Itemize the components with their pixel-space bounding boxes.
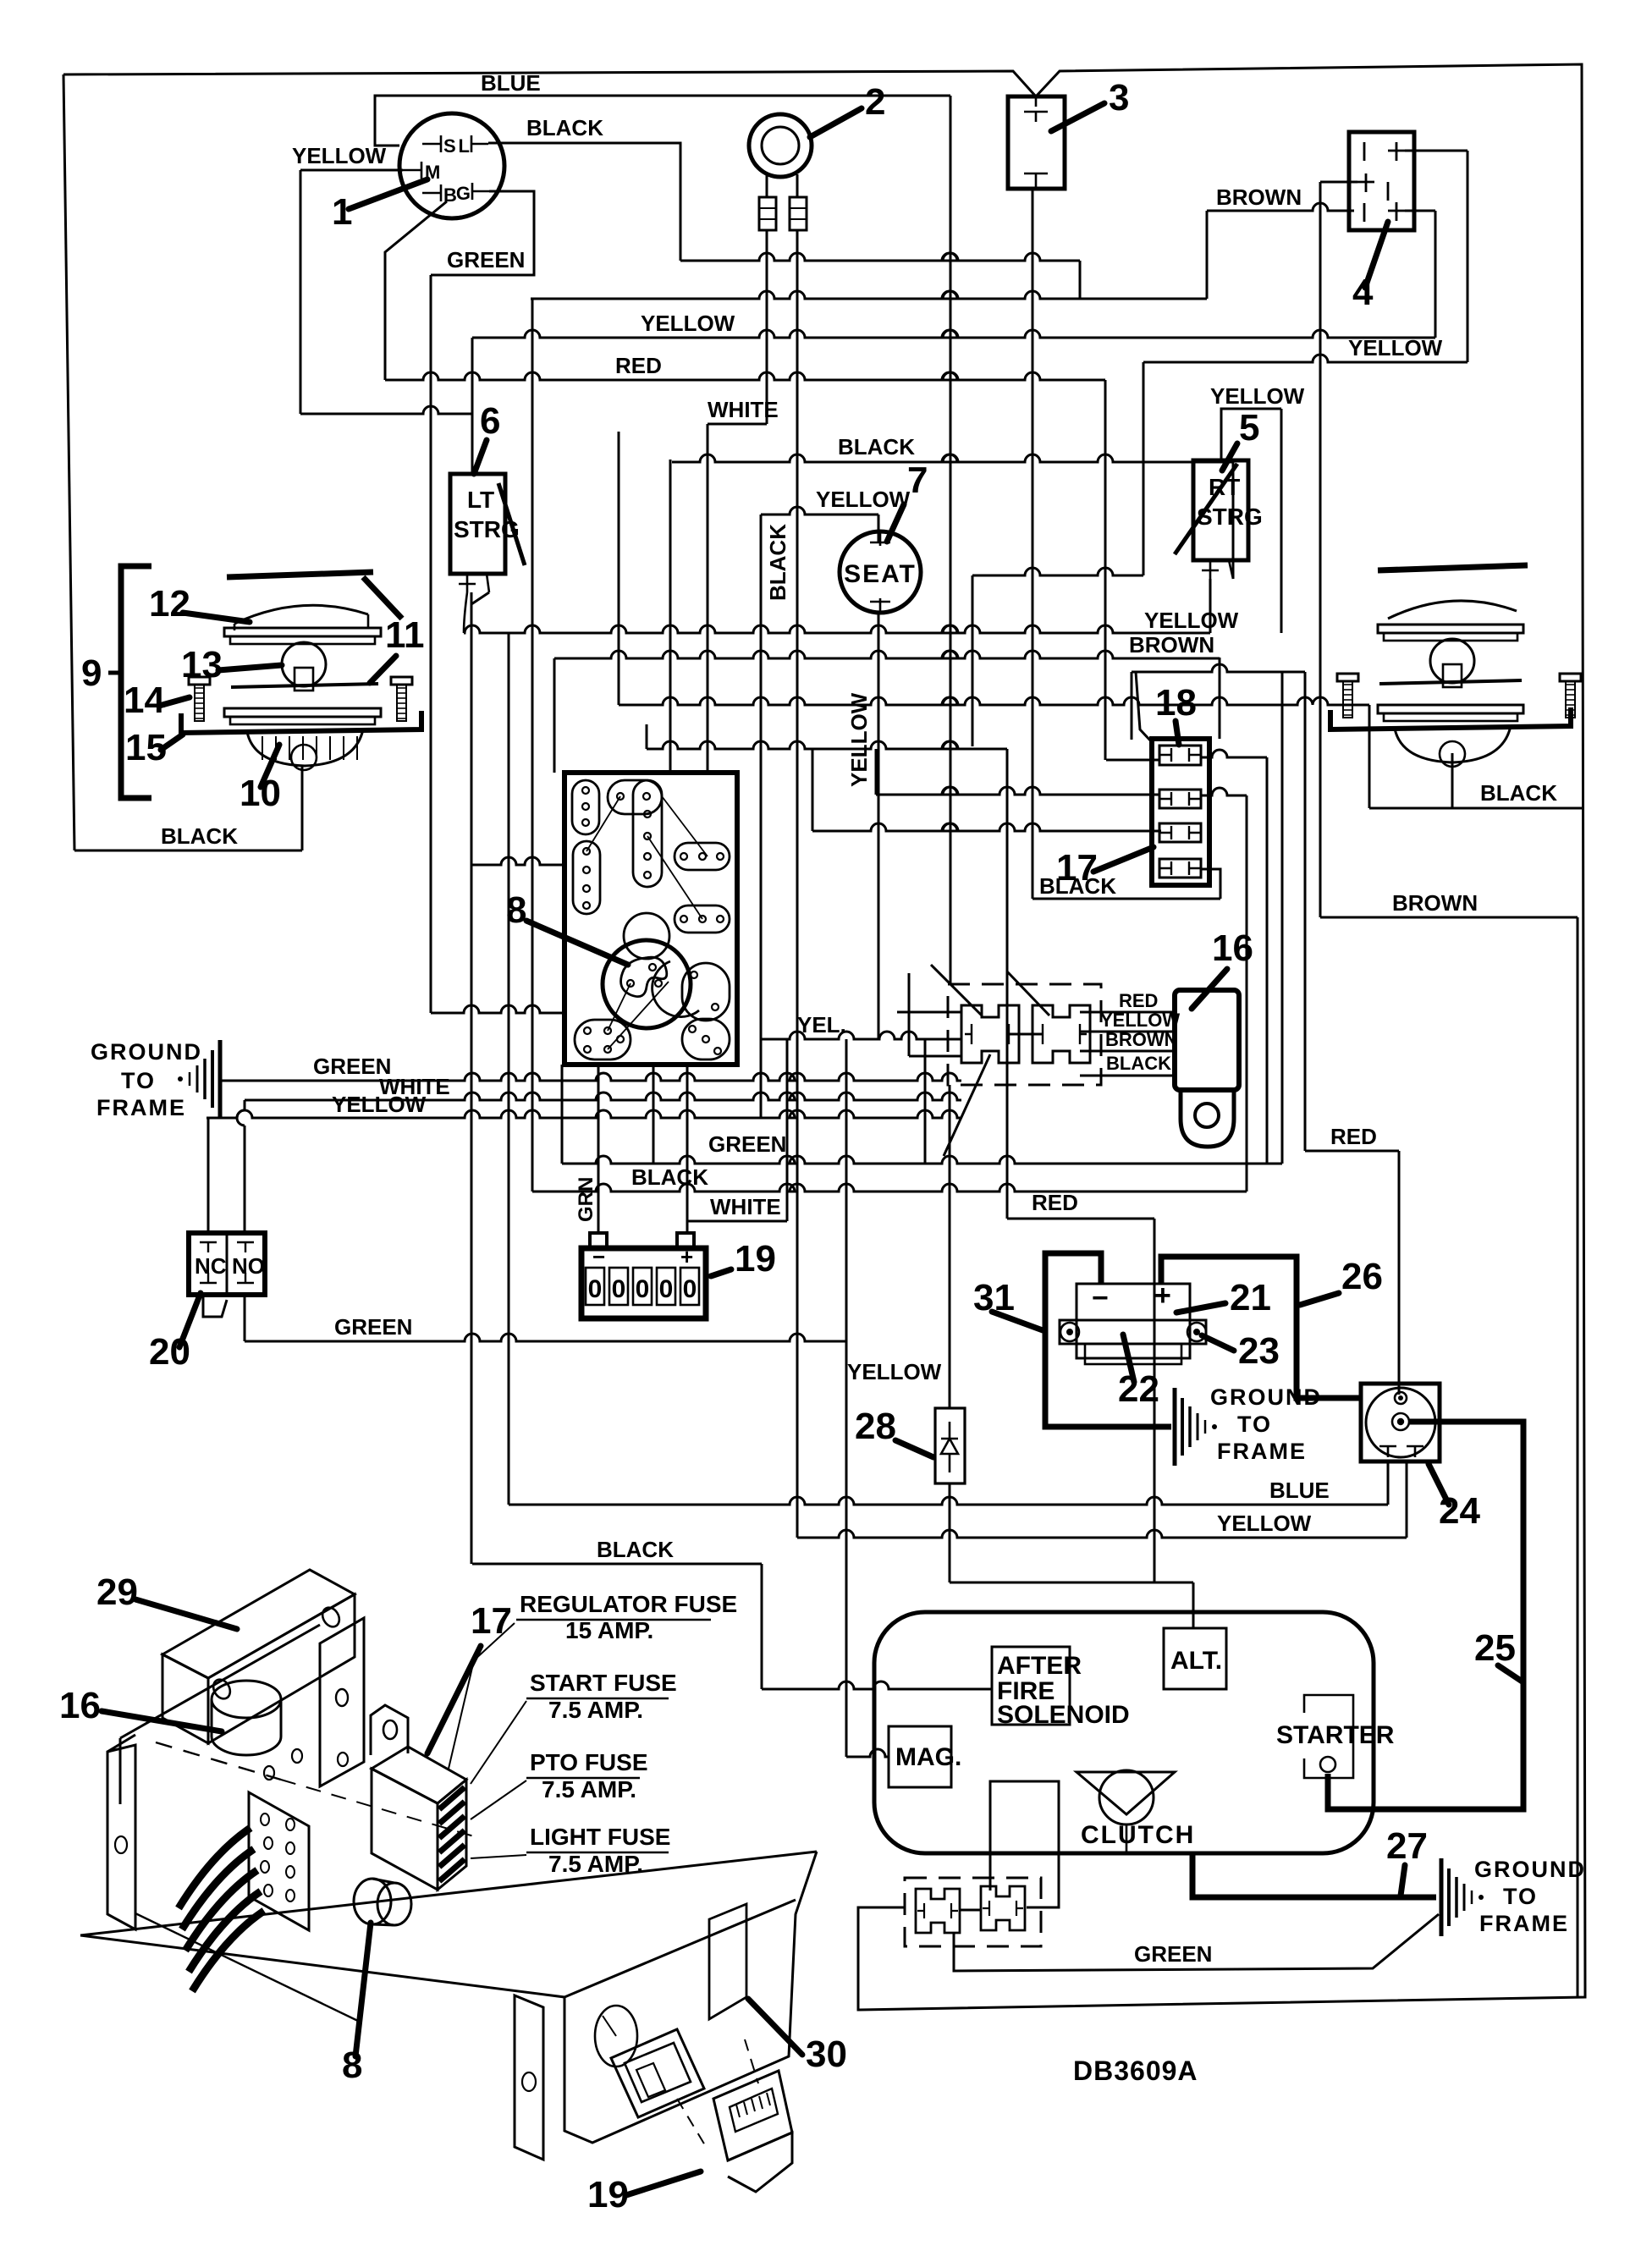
nc-no switch 20 body: [189, 1233, 265, 1295]
ground symbol left: [218, 1040, 223, 1118]
solenoid 24 inner circle: [1366, 1388, 1435, 1457]
wire NC up to yellow bus: [207, 1118, 210, 1233]
svg-text:BROWN: BROWN: [1216, 184, 1302, 210]
svg-text:28: 28: [855, 1406, 896, 1447]
wire YELLOW2 y1817: [797, 1530, 1407, 1538]
wire v1093: [924, 1039, 927, 1164]
svg-text:GROUND: GROUND: [91, 1039, 202, 1065]
lamp bulb: [282, 642, 326, 686]
relay 16 hole: [1195, 1103, 1219, 1127]
solenoid 24 body: [1361, 1384, 1440, 1461]
component 4 terminals: [1364, 142, 1405, 161]
wire connector 2 pin a: [766, 174, 768, 197]
wire brown long right: [1320, 916, 1578, 919]
wire funnel right vertical: [1219, 658, 1221, 739]
engine box: [874, 1612, 1374, 1853]
wire ignition B to red bus: [385, 201, 447, 380]
panel internal trace d: [608, 982, 669, 1049]
leader light fuse: [471, 1855, 526, 1858]
wire v812 meter plus: [686, 1065, 689, 1233]
svg-text:26: 26: [1341, 1256, 1383, 1297]
solenoid top small terminal: [1395, 1392, 1407, 1404]
svg-text:23: 23: [1238, 1330, 1280, 1372]
iso plate30 round hole: [595, 2006, 637, 2067]
ignition pin M: [403, 162, 421, 179]
wire bus y885: [647, 741, 1007, 749]
svg-text:LIGHT FUSE: LIGHT FUSE: [530, 1824, 670, 1850]
after fire solenoid box: [992, 1647, 1070, 1725]
wire connector 2 pin b: [796, 174, 799, 197]
wire bus y885 left up: [646, 724, 648, 749]
wire BLACK from ignition L: [488, 143, 680, 261]
iso knob 8: [354, 1879, 391, 1924]
wire red bus right drop to fuse: [1104, 380, 1107, 760]
wire rt strg bottom-left drop: [1209, 579, 1212, 633]
wire fuse2 left feed: [876, 787, 1159, 795]
fuse 4: [1159, 859, 1201, 878]
wire outer border top and right (ground loop) with dip to component 3: [63, 71, 1036, 96]
iso hour meter 19: [713, 2071, 792, 2160]
leader regulator fuse: [449, 1623, 515, 1769]
ignition switch 1 body: [399, 113, 504, 218]
svg-text:GRN: GRN: [575, 1177, 597, 1222]
wire BLACK bus y308: [680, 253, 1080, 261]
wire plug-left feeds: [897, 1011, 961, 1014]
wire bus y778 left drop: [553, 658, 556, 773]
iso left flange: [107, 1745, 135, 1929]
wire 25 thick solenoid to starter: [1328, 1422, 1523, 1809]
panel circle small: [624, 913, 669, 959]
clutch circle: [1099, 1770, 1154, 1824]
wire RED3: [1304, 672, 1307, 1151]
lt strg switch 6 body: [450, 474, 505, 574]
wire bus y833 left up: [618, 432, 620, 705]
bracket 9: [121, 566, 151, 798]
svg-text:YELLOW: YELLOW: [1210, 383, 1305, 409]
ignition pin G: [472, 183, 489, 200]
wire green2 left up: [561, 1065, 564, 1164]
wire GRN meter feed: [597, 1065, 600, 1233]
wire rt strg bottom-right to black bus: [1232, 462, 1235, 579]
wire alt feed: [1192, 1582, 1195, 1628]
wire 31 battery minus to ground thick: [1045, 1253, 1171, 1427]
component 3 bottom terminal: [1024, 173, 1048, 175]
right lamp bracket bottom: [1330, 707, 1571, 729]
wire v772: [653, 1065, 655, 1164]
wire green4: [954, 1914, 1439, 1971]
connector plug right: [1032, 1005, 1090, 1063]
wire brown right border drop: [1577, 917, 1579, 1997]
iso plate30 top edge: [80, 1852, 817, 1935]
svg-text:BLACK: BLACK: [1480, 780, 1557, 806]
battery strap 22: [1060, 1320, 1206, 1344]
nc-no actuator: [203, 1295, 227, 1317]
svg-text:BLUE: BLUE: [1269, 1478, 1330, 1503]
svg-text:22: 22: [1118, 1368, 1159, 1410]
iso beam 29 top face: [162, 1570, 355, 1678]
inline connector a: [759, 197, 776, 230]
hour meter 19 body: [581, 1248, 706, 1318]
nc-no top terminals: [200, 1242, 254, 1252]
wire black bus left drop: [669, 460, 672, 773]
svg-text:25: 25: [1474, 1627, 1516, 1669]
wire lamp black to border: [74, 850, 302, 852]
svg-text:GROUND: GROUND: [1474, 1857, 1586, 1882]
wire plug right BLACK: [1080, 1075, 1175, 1077]
hour meter minus terminal: [590, 1233, 607, 1248]
svg-text:YELLOW: YELLOW: [846, 692, 872, 787]
svg-text:8: 8: [506, 889, 526, 931]
diode 28 body: [935, 1408, 965, 1483]
iso rocker switch: [611, 2029, 704, 2117]
control panel 8 body: [564, 773, 737, 1065]
wire funnel left to fuse block: [1136, 672, 1152, 742]
svg-text:CLUTCH: CLUTCH: [1081, 1821, 1195, 1849]
wire YELLOW comp4 bus: [1143, 355, 1468, 362]
wire comp4 yellow drop: [1143, 362, 1145, 575]
svg-text:FRAME: FRAME: [96, 1095, 186, 1120]
svg-text:17: 17: [1056, 847, 1098, 889]
wire BLACK4 bus y1408: [532, 1184, 1247, 1192]
iso plate30 body: [80, 1852, 817, 2143]
panel pad T top-mid: [608, 780, 662, 814]
svg-text:YELLOW: YELLOW: [1144, 608, 1239, 633]
lamp bracket bottom: [181, 711, 421, 733]
wire WHITE2 y1443: [687, 1220, 787, 1223]
svg-text:REGULATOR FUSE: REGULATOR FUSE: [520, 1591, 737, 1617]
wire 26 battery plus to solenoid thick: [1161, 1257, 1361, 1398]
panel S pad: [621, 957, 667, 997]
wire GREEN bus y1277: [220, 1073, 961, 1081]
wire lower plugs joining: [960, 1909, 981, 1912]
seat switch 7 body: [840, 531, 921, 613]
wire yellow seat wire: [761, 507, 878, 515]
iso back plate: [320, 1618, 364, 1786]
svg-text:7.5 AMP.: 7.5 AMP.: [542, 1776, 636, 1802]
iso dashed leaders: [677, 2099, 708, 2149]
svg-text:YEL.: YEL.: [797, 1012, 846, 1037]
wire yel left drop: [760, 515, 763, 1118]
wire comp4 top-right terminal: [1405, 150, 1468, 152]
svg-text:5: 5: [1239, 407, 1259, 449]
wire NO up to white bus: [244, 1100, 246, 1233]
svg-text:13: 13: [181, 644, 223, 685]
iso plate30 left flange: [515, 1995, 543, 2160]
wire blue up to solenoid: [1387, 1461, 1390, 1505]
wire yellow bus y399: [472, 330, 1435, 338]
iso back plate hole: [336, 1689, 348, 1706]
wire BLACK5: [472, 1563, 762, 1566]
wire long vertical 601: [508, 633, 510, 1505]
svg-text:−: −: [592, 1244, 605, 1269]
svg-text:16: 16: [59, 1685, 101, 1726]
wire white long vertical: [707, 424, 709, 773]
wire clutch L: [990, 1781, 1059, 1907]
iso beam 29 front face: [162, 1654, 208, 1743]
panel internal trace a: [662, 796, 708, 856]
svg-text:BROWN: BROWN: [1392, 890, 1478, 916]
iso plate30 rect hole: [709, 1904, 746, 2019]
svg-text:0: 0: [612, 1275, 626, 1303]
nc-no bottom terminals: [200, 1273, 254, 1283]
iso cylinder 16: [212, 1681, 281, 1718]
ignition pin L: [471, 135, 488, 152]
lamp bowl socket: [291, 745, 317, 770]
svg-text:DB3609A: DB3609A: [1073, 2056, 1198, 2086]
panel pad bottom-left: [575, 1020, 631, 1059]
wire pin a down to white jog: [766, 230, 768, 424]
svg-text:21: 21: [1230, 1277, 1271, 1318]
inline connector b: [790, 197, 807, 230]
svg-text:19: 19: [587, 2174, 629, 2215]
svg-text:MAG.: MAG.: [895, 1743, 961, 1771]
wire BLACK drop into brown bus: [1079, 261, 1082, 299]
ground symbol battery: [1173, 1388, 1177, 1466]
svg-text:AFTER: AFTER: [997, 1652, 1082, 1680]
wire bus y748: [464, 625, 1210, 633]
connector 2 inner ring: [762, 127, 799, 164]
svg-text:STARTER: STARTER: [1276, 1721, 1395, 1749]
svg-text:27: 27: [1386, 1825, 1428, 1867]
svg-text:3: 3: [1109, 77, 1129, 118]
iso shelf holes: [264, 1766, 274, 1780]
strap bolt right 23: [1187, 1323, 1206, 1341]
lamp mid line: [231, 684, 378, 687]
svg-text:RED: RED: [1330, 1124, 1377, 1149]
lt strg lever: [498, 483, 525, 565]
svg-text:L: L: [459, 135, 470, 157]
svg-text:NO: NO: [232, 1253, 265, 1279]
component 3 top terminal: [1035, 96, 1038, 107]
svg-text:SOLENOID: SOLENOID: [997, 1701, 1130, 1729]
wire brown bus left drop: [531, 299, 534, 1192]
wire WHITE bus y1300: [245, 1092, 961, 1100]
wire bus y833 right drop: [1368, 705, 1371, 808]
svg-text:14: 14: [124, 680, 165, 721]
component 3 body: [1008, 96, 1065, 189]
leader start fuse: [471, 1701, 526, 1784]
rt strg lower terminals: [1202, 560, 1219, 579]
wire fuse3 left feed: [812, 823, 1161, 831]
svg-text:2: 2: [865, 81, 885, 123]
svg-text:10: 10: [240, 773, 281, 814]
svg-text:30: 30: [806, 2034, 847, 2075]
svg-text:BLACK: BLACK: [838, 434, 915, 460]
fuse 1: [1159, 746, 1201, 765]
diode symbol: [941, 1439, 958, 1454]
iso wire bundle: [179, 1828, 251, 1908]
svg-text:6: 6: [480, 400, 500, 442]
wire bus y778: [554, 651, 1220, 658]
wire lt strg top: [471, 338, 474, 474]
right screw left: [1337, 674, 1358, 681]
wire bus y885 right drop: [1006, 749, 1009, 1219]
wire v1000: [845, 1039, 848, 1757]
svg-text:YELLOW: YELLOW: [332, 1092, 427, 1117]
wire brown bus y353: [531, 291, 1207, 299]
iso tab bracket: [371, 1705, 408, 1755]
right screw right: [1560, 674, 1581, 681]
svg-text:BLACK: BLACK: [1106, 1053, 1171, 1074]
svg-text:0: 0: [588, 1275, 603, 1303]
wire GREEN from ignition G: [431, 191, 534, 275]
wire v1149: [972, 575, 974, 746]
right lamp lens arc: [1388, 601, 1517, 619]
ground symbol engine: [1440, 1858, 1444, 1936]
battery 21 body: [1077, 1284, 1190, 1358]
svg-text:GREEN: GREEN: [1134, 1941, 1212, 1967]
right lamp bulb: [1430, 639, 1474, 683]
panel pad top-left: [572, 780, 599, 834]
wire pin b long vertical black: [796, 230, 799, 1538]
panel pad right-top: [675, 843, 730, 870]
svg-text:GREEN: GREEN: [708, 1131, 786, 1157]
wire right lamp black: [1451, 753, 1454, 808]
iso beam hole a: [319, 1604, 343, 1630]
wire plug right YELLOW: [1080, 1031, 1175, 1033]
wire BLUE from ignition S: [375, 96, 950, 146]
wire diag into plug a: [931, 965, 982, 1015]
wire fuse1 right exit: [1201, 750, 1267, 757]
lamp top bar: [227, 572, 373, 577]
panel circle right overlap: [653, 961, 699, 1017]
svg-text:17: 17: [471, 1600, 512, 1642]
svg-text:G: G: [456, 183, 471, 204]
svg-text:PTO FUSE: PTO FUSE: [530, 1749, 648, 1775]
wire plug right RED: [1080, 1011, 1175, 1014]
mag box: [889, 1726, 951, 1787]
wire comp4 bottom-right terminal: [1405, 210, 1435, 212]
svg-text:YELLOW: YELLOW: [1100, 1010, 1180, 1031]
panel pad left-mid: [573, 841, 600, 914]
wire clutch stub: [1126, 1824, 1128, 1852]
svg-text:FRAME: FRAME: [1217, 1439, 1307, 1464]
component 4 body: [1349, 132, 1414, 230]
lamp bowl: [247, 729, 363, 766]
wire yellow2 up to solenoid: [1406, 1461, 1408, 1538]
svg-text:FRAME: FRAME: [1479, 1911, 1569, 1936]
svg-text:GREEN: GREEN: [334, 1314, 412, 1340]
wire YEL bus y1228: [761, 1032, 961, 1039]
svg-text:0: 0: [659, 1275, 674, 1303]
svg-text:+: +: [680, 1244, 693, 1269]
wire panel feed y1022: [471, 857, 564, 865]
svg-text:BLACK: BLACK: [526, 115, 603, 140]
panel pad right-mid: [675, 905, 730, 933]
iso beam hole b: [210, 1676, 234, 1702]
svg-text:0: 0: [636, 1275, 650, 1303]
wire red2 drop and run: [1154, 1219, 1156, 1582]
wire component 3 long vertical: [1032, 189, 1034, 899]
starter bracket: [1304, 1695, 1353, 1778]
lamp diag top right: [363, 577, 402, 619]
svg-text:TO: TO: [1503, 1884, 1538, 1909]
iso fuse hatch marks: [439, 1787, 465, 1809]
svg-text:TO: TO: [1237, 1412, 1272, 1437]
wire diag into plug b: [1007, 971, 1049, 1015]
right lamp plate upper: [1378, 625, 1523, 633]
svg-text:1: 1: [332, 191, 352, 233]
fuse 2: [1159, 790, 1201, 808]
svg-text:RED: RED: [1032, 1190, 1078, 1215]
lamp plate upper: [224, 628, 381, 636]
wire v930: [786, 1039, 789, 1221]
wire black bus y546: [672, 454, 1233, 462]
dashed connector box: [948, 984, 1101, 1085]
svg-text:NC: NC: [195, 1253, 227, 1279]
svg-text:BLUE: BLUE: [481, 70, 541, 96]
wire BROWN jog: [1207, 203, 1354, 211]
svg-text:9: 9: [81, 652, 102, 694]
right lamp top bar: [1378, 565, 1528, 570]
wire comp4 mid-left terminal long brown: [1320, 181, 1357, 184]
svg-text:BLACK: BLACK: [765, 524, 790, 601]
svg-text:BLACK: BLACK: [631, 1164, 708, 1190]
svg-text:18: 18: [1155, 682, 1197, 724]
battery lower body: [1085, 1344, 1181, 1364]
wire plug-to-plug: [1009, 1033, 1043, 1036]
svg-text:16: 16: [1212, 927, 1253, 969]
wire seat bottom vertical: [878, 613, 880, 1039]
svg-text:YELLOW: YELLOW: [641, 311, 735, 336]
connector 2 outer ring: [749, 114, 812, 177]
svg-text:0: 0: [683, 1275, 697, 1303]
svg-text:RED: RED: [1119, 990, 1158, 1011]
panel internal trace e: [608, 983, 631, 1031]
lt strg lower terminal: [459, 574, 476, 592]
wire diag from plug down-left: [944, 1054, 990, 1156]
wire MAG feed: [846, 1749, 889, 1757]
relay 16 body: [1175, 990, 1239, 1090]
iso shelf dashes: [156, 1742, 281, 1780]
panel pad right-diag: [682, 963, 730, 1021]
iso fuse holder top face: [372, 1747, 466, 1803]
wire BLUE vertical: [950, 96, 952, 984]
svg-text:8: 8: [342, 2045, 362, 2086]
svg-text:YELLOW: YELLOW: [1217, 1511, 1312, 1536]
wire outer border left side: [63, 74, 74, 850]
panel internal trace c: [586, 796, 620, 851]
svg-text:12: 12: [149, 583, 190, 625]
svg-text:11: 11: [385, 614, 425, 656]
svg-text:START FUSE: START FUSE: [530, 1670, 677, 1696]
wire bus y680: [972, 568, 1143, 575]
right lamp mid line: [1379, 680, 1522, 684]
wire v1122 upper: [949, 1085, 951, 1408]
rt strg switch 5 body: [1193, 460, 1248, 560]
wire 27 thick ground: [1192, 1852, 1436, 1897]
lower dashed box: [905, 1878, 1041, 1946]
relay 16 tab: [1181, 1090, 1234, 1147]
iso main shelf: [120, 1625, 320, 1738]
right lamp plate lower: [1378, 705, 1523, 713]
iso beam 29 side face: [208, 1594, 355, 1743]
wire red bus y449: [385, 372, 1105, 380]
wire fuse4 black loop: [1201, 869, 1220, 899]
wire fuse-brown left drop: [1131, 672, 1133, 740]
wire YELLOW from ignition M: [300, 169, 403, 172]
wire rt strg top yellow loop: [1221, 409, 1281, 460]
wire YELLOW bus y1321: [206, 1110, 961, 1118]
strap bolt left: [1060, 1323, 1079, 1341]
wire diode bottom lead: [949, 1483, 951, 1582]
svg-text:ALT.: ALT.: [1170, 1647, 1222, 1675]
lower plug left: [916, 1889, 960, 1933]
svg-text:YELLOW: YELLOW: [847, 1359, 942, 1384]
svg-text:YELLOW: YELLOW: [292, 143, 387, 168]
svg-text:LT: LT: [467, 487, 494, 513]
iso fuse holder hatch face: [438, 1780, 466, 1890]
